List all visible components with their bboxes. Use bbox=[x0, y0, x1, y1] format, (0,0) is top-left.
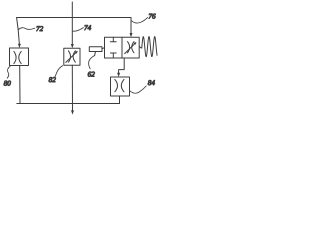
divider bbox=[121, 37, 123, 58]
svg-text:84: 84 bbox=[148, 79, 156, 87]
leader 74 bbox=[72, 28, 83, 32]
leader 76 bbox=[132, 18, 148, 23]
arrowhead at bottom end of center wire bbox=[71, 110, 74, 114]
svg-text:72: 72 bbox=[36, 25, 44, 33]
leader 84 bbox=[130, 86, 146, 93]
transducer box 84 (bottom right) bbox=[111, 77, 130, 96]
spring resonator (right of divided box) bbox=[140, 37, 157, 57]
svg-text:82: 82 bbox=[49, 76, 57, 84]
wire stub box to divided box bbox=[102, 48, 105, 49]
wire center vertical 74 (above rail to middle box) bbox=[71, 2, 73, 46]
transducer box 82 (middle, variable) bbox=[64, 48, 80, 65]
svg-text:62: 62 bbox=[88, 70, 96, 78]
capacitor electrode bottom in left cell bbox=[110, 52, 116, 54]
arrowhead into divided box bbox=[130, 33, 133, 37]
svg-text:80: 80 bbox=[4, 79, 12, 87]
wire bottom rail bbox=[17, 103, 120, 105]
arrowhead into left box bbox=[18, 44, 21, 48]
capacitor electrode top in left cell bbox=[112, 37, 114, 42]
arrowhead into middle box bbox=[71, 44, 74, 48]
wire center vertical below middle box through rail bbox=[71, 65, 73, 111]
wire left drop from rail to left box bbox=[17, 18, 20, 45]
wire right drop from rail to divided box bbox=[130, 18, 132, 35]
leader 62 bbox=[89, 56, 95, 69]
wire jog from divided box down to box 84 bbox=[119, 58, 125, 74]
symbol arcs in box 80 bbox=[14, 51, 16, 63]
svg-text:74: 74 bbox=[84, 24, 92, 32]
svg-text:76: 76 bbox=[148, 12, 156, 20]
wire top rail 72 bbox=[17, 17, 131, 19]
stub below box 62 bbox=[94, 52, 97, 56]
symbol arcs in box 82 bbox=[68, 51, 70, 62]
symbol arcs in box 84 bbox=[115, 79, 118, 91]
wire below box 80 to bottom rail bbox=[19, 66, 21, 104]
wire below box 84 to bottom rail bbox=[119, 96, 121, 104]
arrowhead into box 84 bbox=[117, 73, 120, 77]
actuator stub box 62 (left of divided box) bbox=[89, 47, 102, 52]
variable arrow in right cell bbox=[125, 43, 136, 53]
symbol arcs in right cell bbox=[128, 42, 130, 53]
leader 80 bbox=[7, 66, 11, 79]
variable arrow in box 82 bbox=[66, 52, 77, 62]
leader 82 bbox=[55, 66, 63, 77]
leader 72 bbox=[18, 28, 35, 30]
transducer box 80 (left) bbox=[10, 48, 29, 66]
divided box (cap cell + variable cell) bbox=[105, 37, 140, 58]
